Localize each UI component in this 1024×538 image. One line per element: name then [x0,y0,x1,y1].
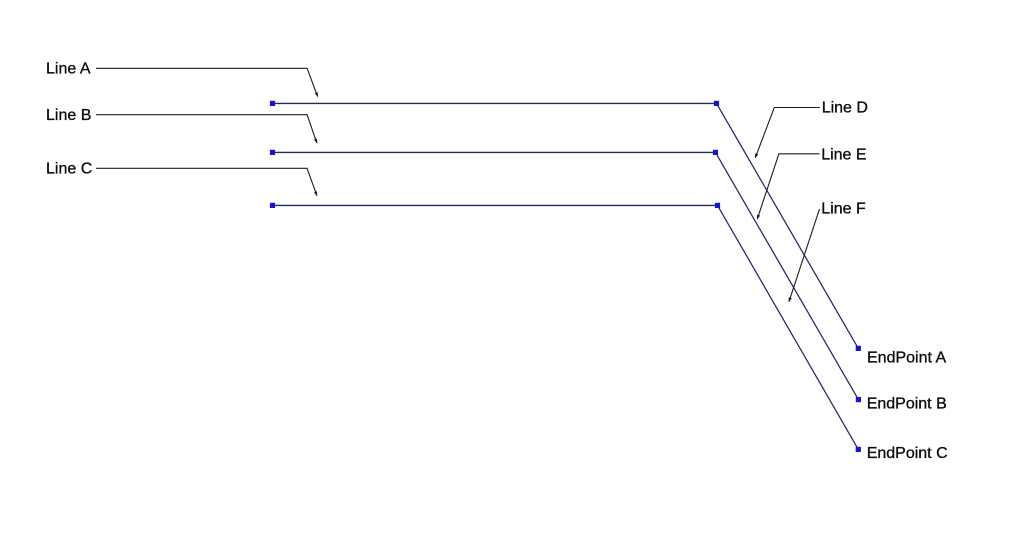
svg-text:Line C: Line C [46,161,92,178]
svg-text:Line A: Line A [46,61,91,78]
svg-text:EndPoint A: EndPoint A [867,350,947,367]
svg-text:Line B: Line B [46,107,91,124]
svg-text:Line E: Line E [821,147,866,164]
svg-text:Line D: Line D [822,100,868,117]
svg-text:Line F: Line F [821,200,866,217]
svg-text:EndPoint C: EndPoint C [867,445,948,462]
svg-text:EndPoint B: EndPoint B [867,396,947,413]
